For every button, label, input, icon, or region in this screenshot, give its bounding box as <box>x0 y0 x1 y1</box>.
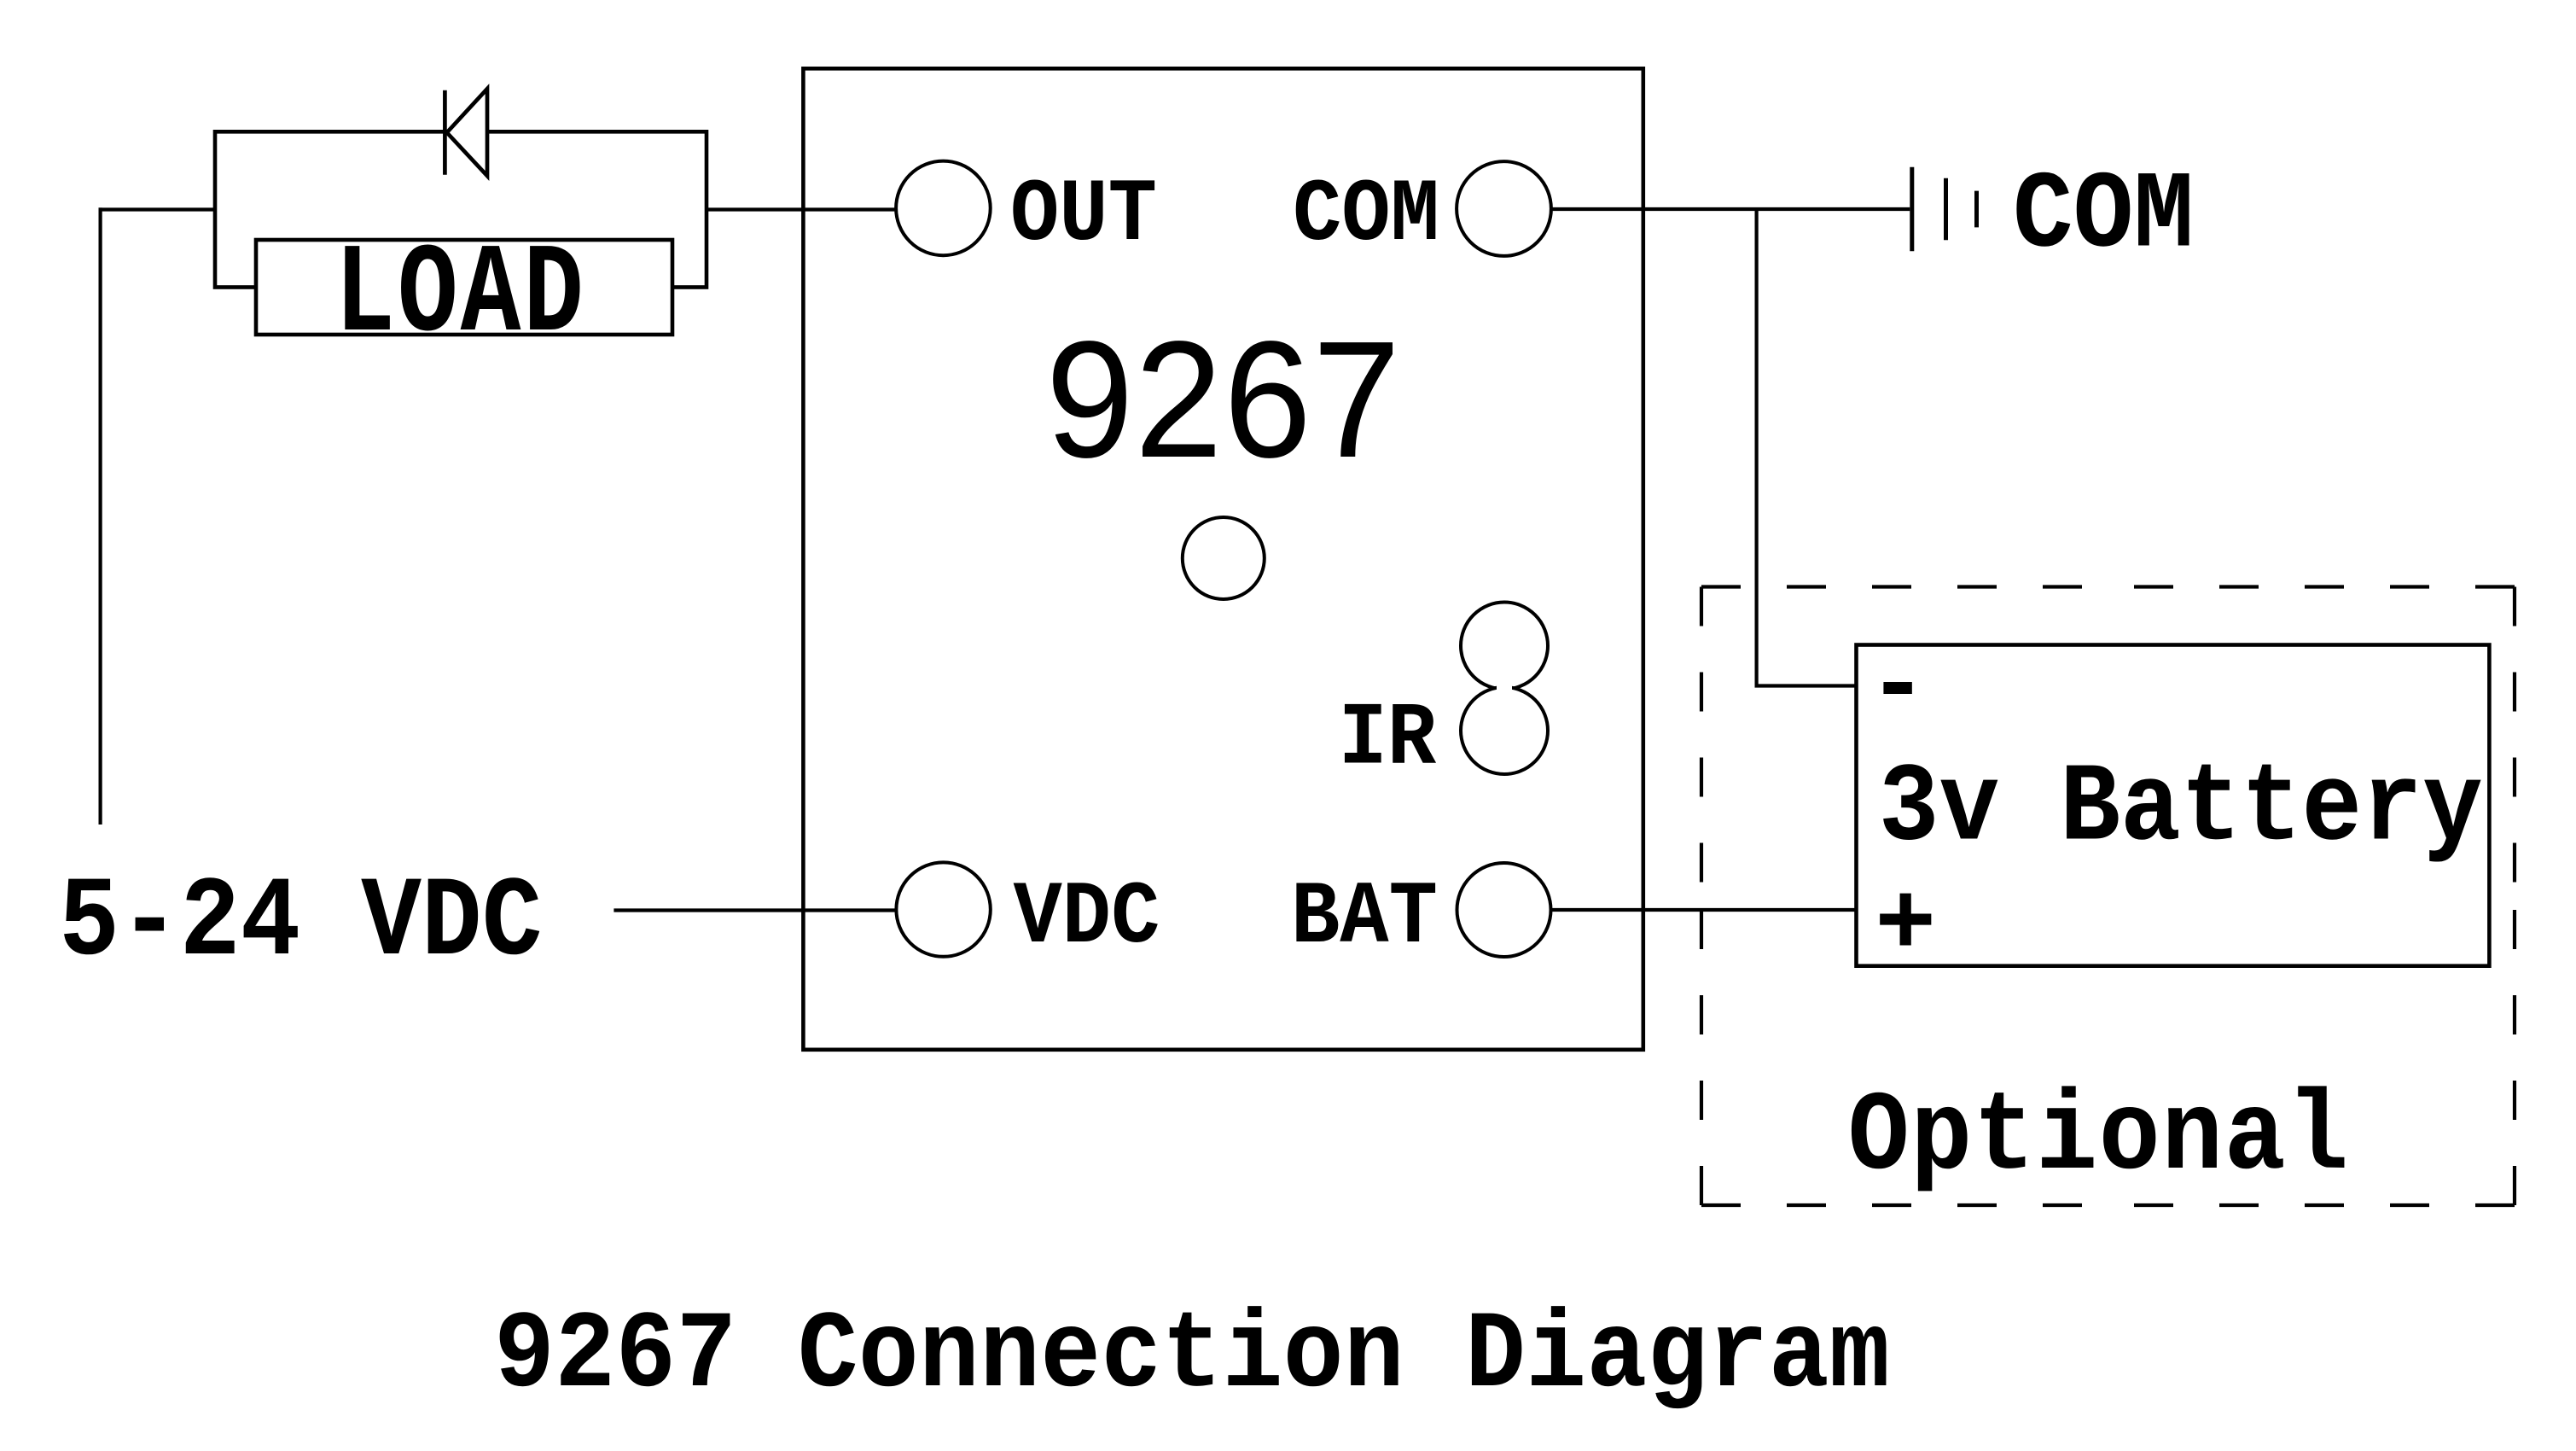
load box <box>256 240 672 335</box>
svg-text:OUT: OUT <box>1010 166 1157 266</box>
IR circles waist pinch <box>1497 683 1512 693</box>
pin BAT circle <box>1457 863 1551 957</box>
svg-text:5-24 VDC: 5-24 VDC <box>59 860 542 988</box>
pin VDC label <box>1014 868 1160 969</box>
load label LOAD <box>334 224 586 368</box>
svg-text:IR: IR <box>1339 689 1437 790</box>
wire left vertical from load loop down to 5-24 VDC <box>98 207 102 825</box>
wire branch down to battery minus <box>1757 209 1857 686</box>
svg-text:9267: 9267 <box>1046 307 1402 492</box>
svg-text:LOAD: LOAD <box>334 224 586 368</box>
optional dashed box <box>1701 587 2515 1206</box>
svg-text:9267 Connection Diagram: 9267 Connection Diagram <box>494 1294 1890 1419</box>
svg-text:BAT: BAT <box>1291 868 1438 969</box>
pin BAT label <box>1291 868 1438 969</box>
svg-text:VDC: VDC <box>1014 868 1160 969</box>
diode D1 triangle <box>447 89 487 176</box>
pin COM label <box>1293 166 1439 266</box>
pin COM circle <box>1457 161 1551 256</box>
pin IR label <box>1339 689 1437 790</box>
wire COM: COM pin to common symbol <box>1551 207 1910 211</box>
title 9267 Connection Diagram <box>494 1294 1890 1419</box>
wire BAT: BAT pin to battery plus <box>1551 908 1857 912</box>
diode D1 cathode bar <box>443 90 447 175</box>
battery minus terminal label <box>1868 631 1928 744</box>
big 9267 part number <box>1046 307 1402 492</box>
Optional caption <box>1848 1074 2350 1202</box>
wire VDC: supply to VDC pin <box>613 908 896 912</box>
svg-text:COM: COM <box>2013 154 2194 278</box>
common battery symbol bar short <box>1974 191 1979 228</box>
svg-text:COM: COM <box>1293 166 1439 266</box>
IR sensor circle top <box>1461 603 1548 690</box>
battery plus terminal label <box>1875 869 1936 985</box>
wire left horizontal into load loop <box>99 207 218 211</box>
pin OUT circle <box>896 161 991 256</box>
pin VDC circle <box>896 862 990 956</box>
common battery symbol bar medium <box>1944 178 1948 241</box>
svg-text:3v Battery: 3v Battery <box>1879 746 2483 872</box>
svg-text:+: + <box>1875 869 1936 985</box>
COM net label <box>2013 154 2194 278</box>
5-24 VDC supply label <box>59 860 542 988</box>
common battery symbol bar long <box>1910 167 1914 252</box>
battery 3v Battery label <box>1879 746 2483 872</box>
indicator small circle <box>1183 517 1265 599</box>
IR sensor circle bottom <box>1461 687 1548 774</box>
battery box <box>1857 645 2490 966</box>
svg-text:Optional: Optional <box>1848 1074 2350 1202</box>
svg-text:-: - <box>1868 631 1928 744</box>
wire OUT: load loop to OUT pin <box>707 207 896 211</box>
pin OUT label <box>1010 166 1157 266</box>
load loop rectangle <box>215 131 707 287</box>
9267 module box <box>803 68 1643 1050</box>
